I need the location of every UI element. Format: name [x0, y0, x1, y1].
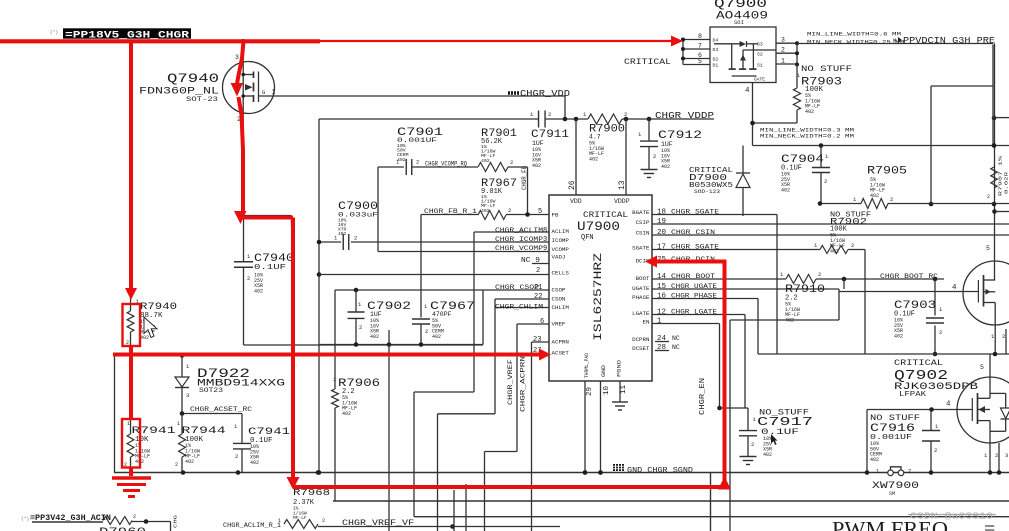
svg-text:SM: SM: [889, 491, 895, 497]
svg-text:16: 16: [657, 293, 667, 301]
svg-text:2: 2: [235, 453, 238, 460]
svg-text:23: 23: [533, 336, 541, 344]
svg-text:2: 2: [890, 196, 893, 203]
svg-text:CHGR_CSIN: CHGR_CSIN: [671, 229, 715, 236]
svg-text:PPVDCIN_G3H_PRE: PPVDCIN_G3H_PRE: [903, 35, 995, 46]
svg-text:19: 19: [657, 218, 666, 226]
svg-text:ISL6257HRZ: ISL6257HRZ: [593, 252, 605, 341]
svg-text:1UF: 1UF: [532, 140, 544, 147]
svg-text:14: 14: [657, 273, 667, 281]
svg-text:PGND: PGND: [617, 360, 623, 377]
svg-text:Q7900: Q7900: [714, 0, 767, 11]
svg-text:402: 402: [894, 333, 903, 339]
svg-text:1UF: 1UF: [370, 311, 382, 318]
svg-text:2: 2: [995, 452, 998, 459]
svg-text:MF-LF: MF-LF: [293, 515, 307, 521]
svg-text:CHGR_VCOMP_RQ: CHGR_VCOMP_RQ: [425, 161, 467, 168]
svg-text:3: 3: [1005, 452, 1008, 459]
svg-text:402: 402: [661, 164, 670, 170]
svg-text:2: 2: [624, 111, 627, 118]
svg-text:21: 21: [534, 284, 542, 292]
svg-text:CRITICAL: CRITICAL: [894, 359, 943, 368]
svg-text:CHGR_ACLIM: CHGR_ACLIM: [495, 227, 543, 234]
svg-text:1: 1: [657, 318, 662, 326]
svg-text:2: 2: [751, 441, 754, 448]
svg-text:XW7900: XW7900: [872, 481, 919, 492]
svg-text:11: 11: [620, 384, 628, 394]
svg-text:MIN_NECK_WIDTH=0.25 MM: MIN_NECK_WIDTH=0.25 MM: [807, 40, 904, 46]
svg-text:3: 3: [781, 37, 785, 44]
svg-text:CSIN: CSIN: [636, 230, 650, 237]
svg-text:2: 2: [322, 518, 325, 524]
svg-text:NC: NC: [672, 344, 680, 351]
svg-text:2: 2: [1002, 333, 1005, 340]
svg-text:S1: S1: [757, 63, 763, 69]
svg-text:NO STUFF: NO STUFF: [801, 65, 852, 74]
svg-text:BGATE: BGATE: [632, 209, 650, 216]
svg-text:4: 4: [952, 284, 957, 292]
svg-text:7: 7: [698, 43, 702, 50]
svg-text:2: 2: [987, 194, 990, 200]
svg-text:FB: FB: [552, 212, 559, 219]
svg-text:=PP18V5_G3H_CHGR: =PP18V5_G3H_CHGR: [65, 29, 190, 41]
svg-text:=: =: [984, 518, 995, 531]
svg-text:2: 2: [175, 462, 178, 468]
svg-text:CHGR_BOOT: CHGR_BOOT: [671, 273, 715, 280]
svg-text:R7907 1%: R7907 1%: [998, 156, 1004, 196]
svg-text:SGATE: SGATE: [632, 245, 650, 252]
svg-text:U7900: U7900: [577, 219, 620, 234]
svg-text:S2: S2: [757, 52, 763, 58]
svg-text:2: 2: [359, 324, 362, 331]
svg-text:2: 2: [851, 242, 854, 249]
svg-text:470PF: 470PF: [432, 311, 452, 318]
svg-text:17: 17: [657, 244, 666, 252]
svg-text:S3: S3: [757, 42, 763, 48]
svg-text:2: 2: [425, 328, 428, 335]
svg-text:CHGR_VDD: CHGR_VDD: [520, 89, 570, 99]
svg-text:8: 8: [543, 227, 547, 235]
svg-text:402: 402: [432, 334, 441, 340]
svg-text:CHGR_ACLIM_R_1: CHGR_ACLIM_R_1: [223, 522, 281, 529]
svg-text:CHGR_SGATE: CHGR_SGATE: [671, 209, 719, 216]
svg-text:13: 13: [618, 180, 627, 190]
svg-text:NC 9: NC 9: [521, 257, 540, 265]
svg-text:GND_CHGR_SGND: GND_CHGR_SGND: [627, 467, 693, 475]
svg-text:ACSET: ACSET: [552, 350, 570, 357]
svg-text:D2: D2: [713, 57, 719, 63]
svg-text:ACPRN: ACPRN: [552, 339, 570, 346]
svg-text:DCPRN: DCPRN: [632, 336, 650, 343]
svg-text:29: 29: [586, 387, 594, 396]
svg-text:CHGR_ACSET_RC: CHGR_ACSET_RC: [190, 406, 252, 413]
svg-text:CHG: CHG: [173, 515, 179, 528]
svg-text:0.001UF: 0.001UF: [397, 137, 437, 144]
svg-text:CHGR_VREF: CHGR_VREF: [507, 359, 514, 405]
svg-text:8: 8: [698, 33, 702, 40]
svg-text:SOD-123: SOD-123: [694, 188, 720, 195]
svg-text:2: 2: [508, 207, 511, 214]
svg-text:0.1UF: 0.1UF: [254, 264, 286, 272]
svg-text:10: 10: [603, 385, 611, 395]
svg-text:G: G: [262, 89, 265, 96]
svg-text:CHGR_PHASE: CHGR_PHASE: [671, 293, 717, 300]
svg-text:402: 402: [254, 288, 263, 294]
svg-text:26: 26: [568, 180, 577, 190]
svg-text:GND: GND: [601, 365, 607, 377]
svg-text:CSIP: CSIP: [636, 219, 650, 226]
svg-text:D3: D3: [713, 47, 719, 53]
svg-text:2: 2: [548, 111, 551, 118]
svg-text:402: 402: [781, 187, 790, 193]
svg-text:2: 2: [510, 159, 513, 166]
svg-text:D4: D4: [713, 38, 719, 44]
svg-text:UGATE: UGATE: [632, 285, 650, 292]
svg-text:15: 15: [657, 283, 667, 291]
svg-text:402: 402: [397, 157, 406, 163]
svg-text:2: 2: [824, 178, 827, 185]
svg-text:402: 402: [870, 193, 879, 199]
svg-text:4: 4: [745, 87, 750, 95]
svg-text:MIN_NECK_WIDTH=0.2 MM: MIN_NECK_WIDTH=0.2 MM: [760, 134, 854, 140]
svg-text:CHGR_FB_R_1: CHGR_FB_R_1: [424, 208, 477, 215]
svg-text:2: 2: [781, 47, 785, 54]
svg-text:BOOT: BOOT: [636, 275, 650, 282]
svg-text:CSON: CSON: [552, 296, 566, 303]
svg-text:C7917: C7917: [757, 415, 813, 429]
svg-text:ICOMP: ICOMP: [552, 237, 570, 244]
svg-text:3: 3: [235, 54, 239, 61]
svg-text:402: 402: [250, 460, 259, 466]
svg-text:2: 2: [247, 275, 250, 282]
svg-text:SOI: SOI: [734, 19, 744, 26]
svg-text:0.033uF: 0.033uF: [338, 212, 378, 219]
svg-text:402: 402: [805, 109, 814, 115]
svg-text:PHASE: PHASE: [632, 294, 650, 301]
svg-text:DCSET: DCSET: [632, 345, 650, 352]
svg-text:402: 402: [338, 231, 347, 237]
svg-text:3: 3: [186, 392, 189, 399]
svg-text:2: 2: [939, 329, 942, 336]
svg-text:402: 402: [870, 457, 879, 463]
svg-text:CHGR_SGATE: CHGR_SGATE: [671, 244, 719, 251]
svg-text:CHGR_BOOT_RC: CHGR_BOOT_RC: [880, 273, 938, 280]
svg-text:402: 402: [481, 158, 490, 164]
svg-text:4.7: 4.7: [589, 134, 601, 141]
svg-text:1: 1: [333, 377, 336, 383]
svg-text:9: 9: [543, 245, 547, 253]
svg-text:VDD: VDD: [570, 198, 582, 205]
svg-text:NC: NC: [672, 335, 680, 342]
svg-text:CHGR_CHLIM: CHGR_CHLIM: [495, 304, 543, 311]
svg-text:2: 2: [818, 271, 821, 278]
svg-text:18: 18: [657, 209, 666, 217]
svg-text:CRITICAL: CRITICAL: [624, 57, 671, 67]
svg-text:CHLIM: CHLIM: [552, 304, 570, 311]
svg-text:SOT-23: SOT-23: [186, 96, 219, 103]
svg-text:2: 2: [536, 267, 540, 275]
svg-text:402: 402: [481, 208, 490, 214]
svg-text:(*): (*): [50, 30, 58, 36]
svg-text:0.02R: 0.02R: [1006, 171, 1009, 194]
svg-text:1: 1: [278, 518, 281, 524]
svg-text:402: 402: [342, 411, 351, 417]
svg-text:402: 402: [532, 163, 541, 169]
svg-text:5: 5: [980, 364, 984, 371]
svg-text:VCOMP: VCOMP: [552, 246, 570, 253]
svg-text:1: 1: [127, 421, 130, 427]
svg-text:2: 2: [908, 468, 911, 475]
svg-text:402: 402: [589, 156, 598, 162]
svg-text:D7960: D7960: [99, 527, 146, 531]
svg-text:20: 20: [657, 229, 667, 237]
svg-text:NO STUFF: NO STUFF: [870, 414, 920, 423]
svg-text:VADJ: VADJ: [552, 254, 566, 261]
svg-text:MIN_LINE_WIDTH=0.6 MM: MIN_LINE_WIDTH=0.6 MM: [807, 32, 901, 38]
svg-text:CHGR_EN: CHGR_EN: [699, 378, 707, 415]
svg-text:3: 3: [543, 236, 547, 244]
svg-text:CHGR_VREF_VF: CHGR_VREF_VF: [342, 519, 414, 528]
svg-text:402: 402: [785, 317, 794, 323]
svg-text:402: 402: [185, 459, 194, 465]
svg-text:CHGR_VDDP: CHGR_VDDP: [655, 111, 714, 121]
svg-text:6: 6: [540, 318, 544, 326]
svg-text:CELLS: CELLS: [552, 270, 570, 277]
svg-text:CHGR_CSOP: CHGR_CSOP: [495, 284, 539, 291]
svg-text:PWM FREQ: PWM FREQ: [832, 517, 948, 531]
svg-text:2: 2: [934, 447, 937, 454]
svg-text:VREF: VREF: [552, 321, 566, 328]
svg-text:5: 5: [538, 208, 542, 216]
svg-text:4: 4: [946, 401, 951, 409]
svg-text:22: 22: [534, 293, 542, 301]
svg-text:402: 402: [370, 334, 379, 340]
svg-text:CHGR_VCOMP: CHGR_VCOMP: [495, 245, 543, 252]
svg-text:CHGR_LGATE: CHGR_LGATE: [671, 309, 717, 316]
svg-text:2: 2: [133, 514, 136, 520]
svg-text:CHGR_FB: CHGR_FB: [521, 166, 528, 190]
svg-text:EN: EN: [643, 319, 650, 326]
svg-text:LFPAK: LFPAK: [899, 391, 927, 399]
svg-text:1UF: 1UF: [661, 141, 673, 148]
svg-text:CHGR_UGATE: CHGR_UGATE: [671, 283, 717, 290]
svg-text:5: 5: [986, 245, 990, 252]
svg-text:12: 12: [657, 309, 666, 317]
svg-text:5: 5: [698, 58, 702, 65]
svg-text:CHGR_ACPRN: CHGR_ACPRN: [520, 356, 527, 412]
svg-text:SOT23: SOT23: [199, 387, 223, 394]
svg-text:2: 2: [416, 159, 419, 166]
svg-text:2: 2: [354, 235, 357, 242]
svg-text:D1: D1: [713, 63, 719, 69]
svg-text:QFN: QFN: [581, 234, 594, 242]
svg-text:ACLIM: ACLIM: [552, 228, 570, 235]
svg-text:402: 402: [830, 248, 839, 254]
svg-text:R7905: R7905: [867, 166, 907, 178]
svg-text:GATE: GATE: [754, 77, 765, 83]
svg-text:THRML_PAD: THRML_PAD: [584, 353, 590, 378]
svg-text:1: 1: [781, 58, 785, 65]
svg-text:402: 402: [763, 452, 772, 458]
svg-text:1: 1: [177, 421, 180, 427]
svg-text:CHGR_ICOMP: CHGR_ICOMP: [495, 236, 543, 243]
svg-text:CSOP: CSOP: [552, 287, 566, 294]
svg-text:VDDP: VDDP: [614, 198, 630, 205]
svg-text:402: 402: [140, 335, 149, 341]
svg-text:LGATE: LGATE: [632, 310, 650, 317]
svg-text:1: 1: [272, 89, 276, 96]
svg-text:Q7940: Q7940: [167, 72, 219, 86]
svg-text:2: 2: [653, 153, 656, 160]
